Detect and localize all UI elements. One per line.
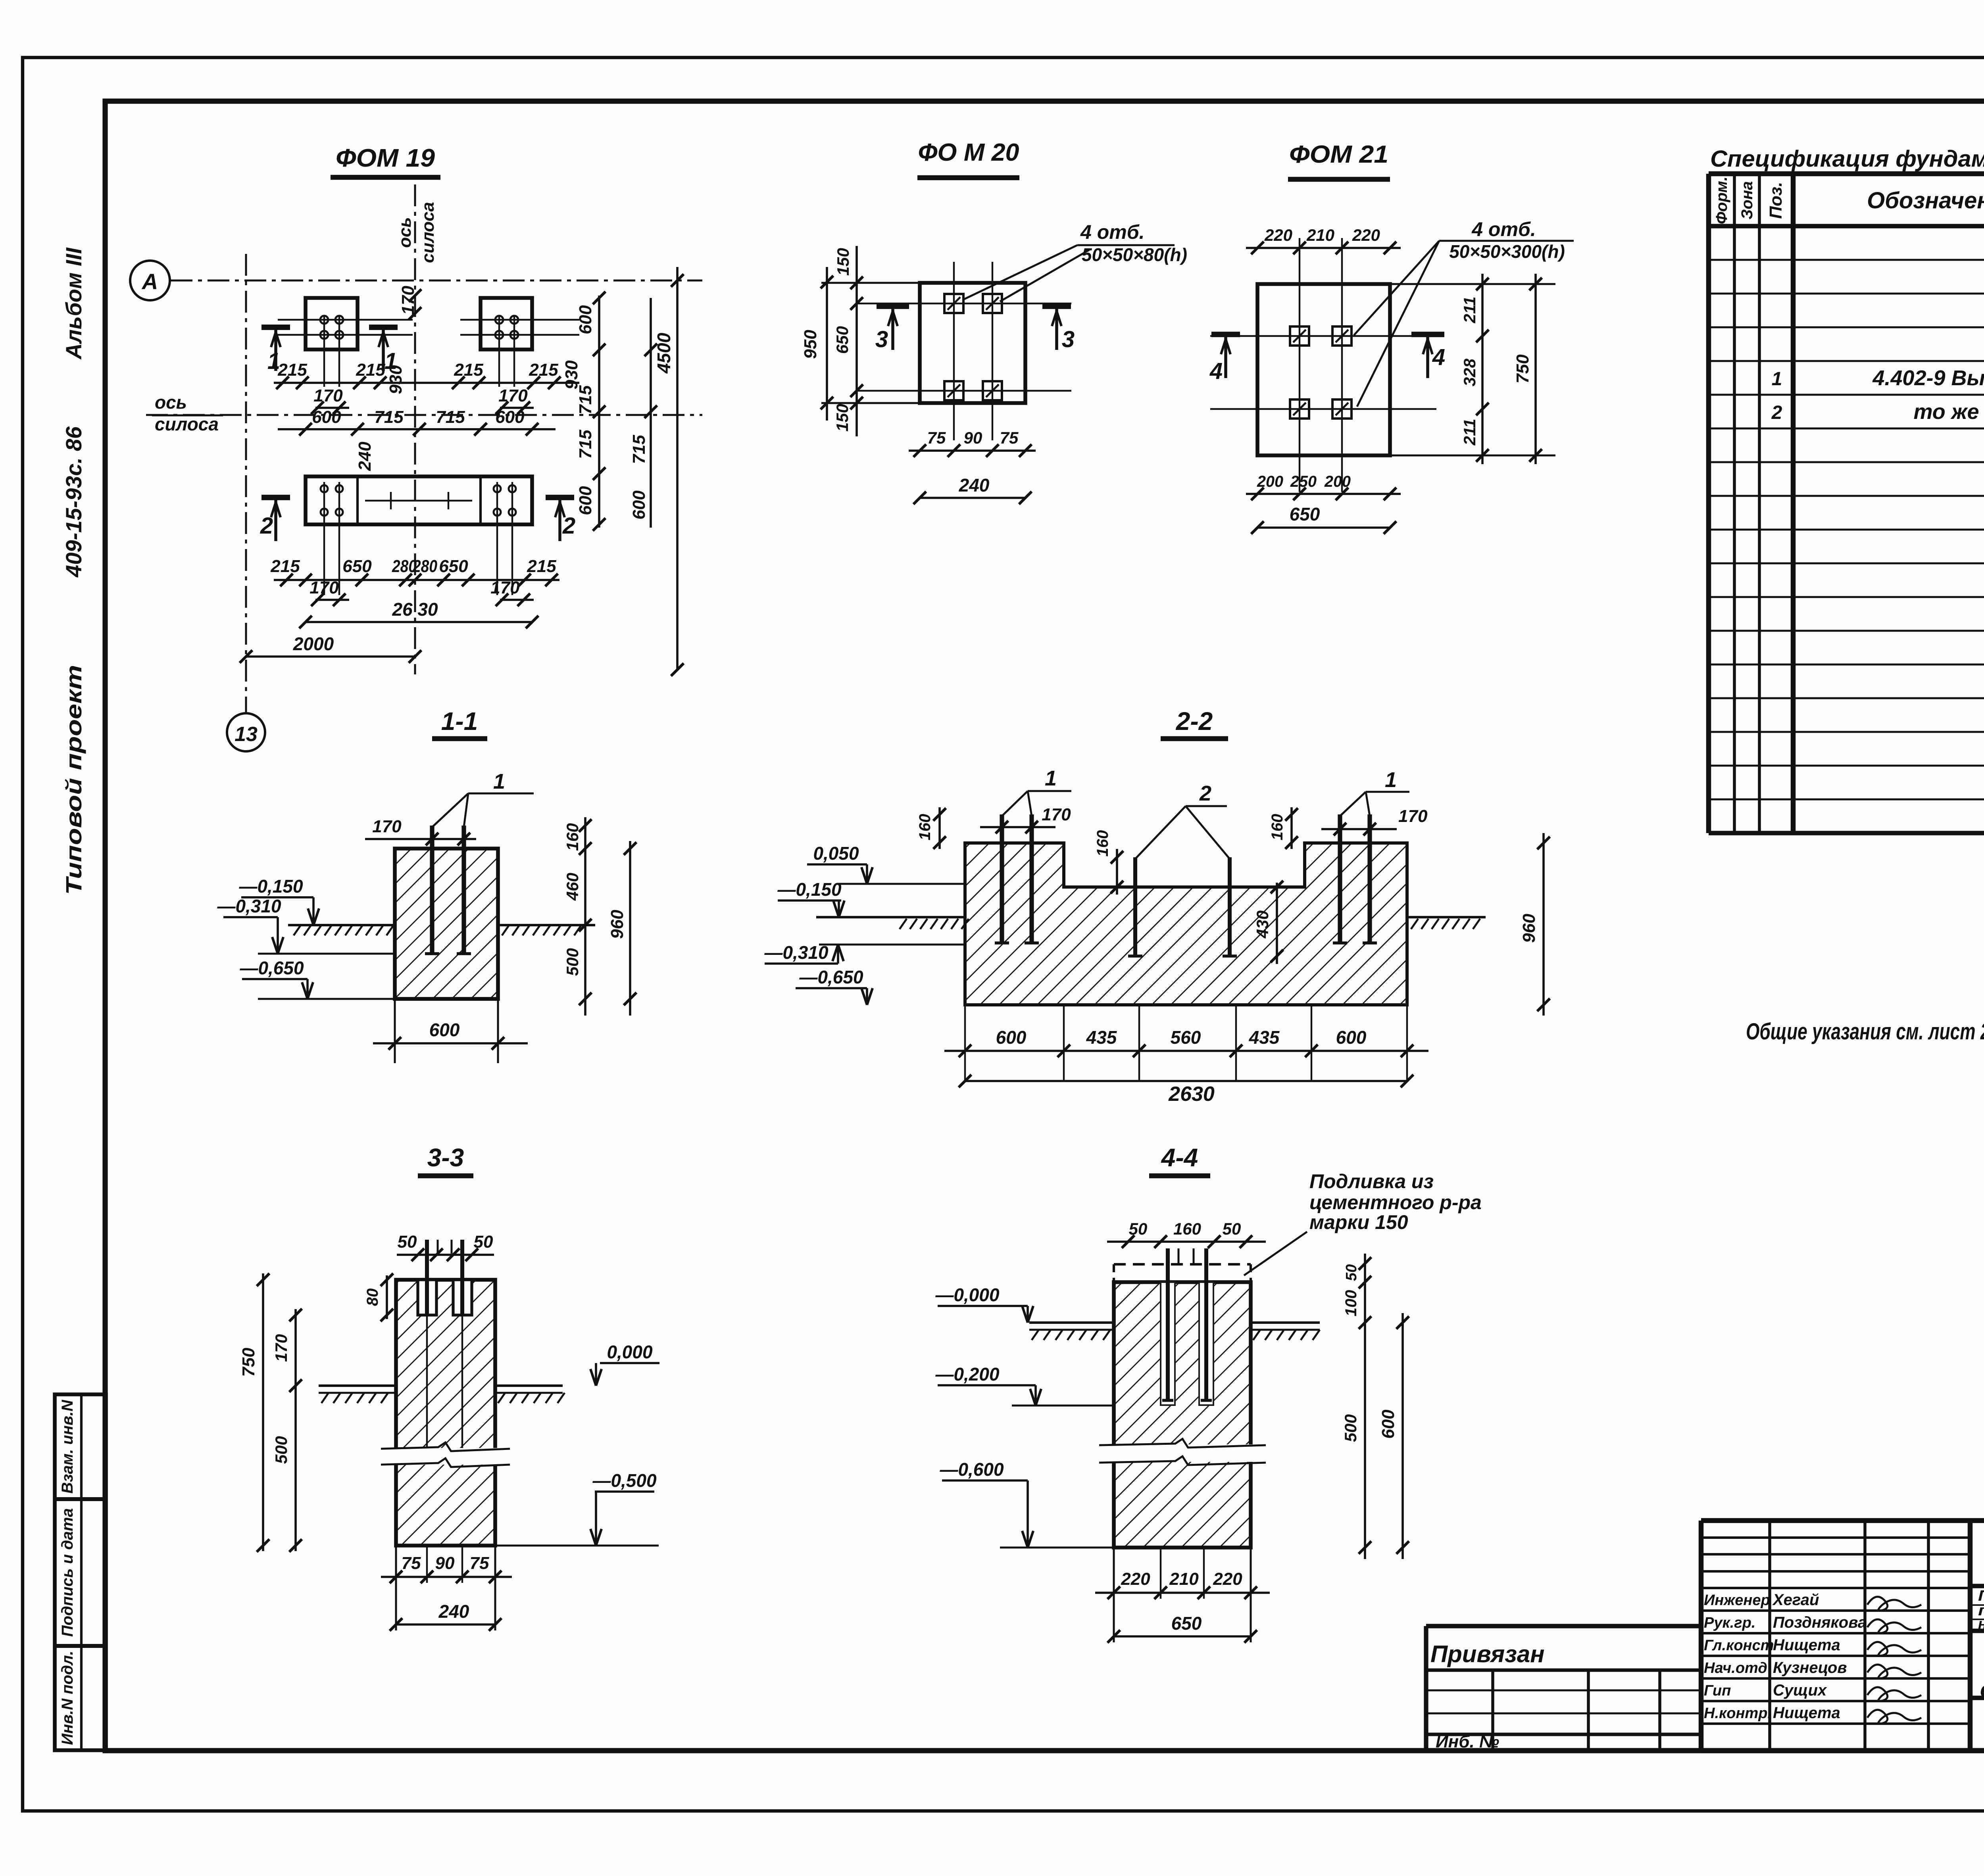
svg-text:Зона: Зона xyxy=(1738,181,1756,220)
svg-text:1: 1 xyxy=(1045,766,1057,790)
svg-text:Нач.отд: Нач.отд xyxy=(1704,1660,1767,1676)
svg-text:Форм.: Форм. xyxy=(1713,177,1730,224)
svg-text:1: 1 xyxy=(493,770,505,793)
svg-text:170: 170 xyxy=(372,817,402,836)
svg-text:—0,650: —0,650 xyxy=(239,958,304,978)
svg-text:то же: то же xyxy=(1913,400,1979,424)
svg-text:715: 715 xyxy=(576,385,595,415)
svg-text:170: 170 xyxy=(1042,805,1071,824)
svg-text:50: 50 xyxy=(398,1232,417,1252)
svg-text:—0,500: —0,500 xyxy=(592,1470,657,1491)
svg-text:75: 75 xyxy=(927,428,946,447)
svg-text:—0,310: —0,310 xyxy=(217,896,281,916)
svg-text:2: 2 xyxy=(1199,782,1211,805)
svg-text:650: 650 xyxy=(1290,504,1320,524)
svg-text:170: 170 xyxy=(490,578,520,597)
svg-text:215: 215 xyxy=(356,360,385,380)
svg-text:силоса: силоса xyxy=(418,202,438,263)
svg-text:Сущих: Сущих xyxy=(1773,1682,1827,1699)
svg-text:26 30: 26 30 xyxy=(392,599,438,620)
svg-text:430: 430 xyxy=(1253,910,1272,939)
svg-text:715: 715 xyxy=(374,407,404,427)
svg-text:90: 90 xyxy=(435,1553,455,1573)
svg-text:650: 650 xyxy=(1171,1613,1202,1634)
svg-text:170: 170 xyxy=(498,386,528,405)
svg-text:1: 1 xyxy=(1385,768,1397,792)
svg-text:75: 75 xyxy=(402,1553,421,1573)
svg-text:50: 50 xyxy=(1129,1219,1148,1238)
svg-text:460: 460 xyxy=(563,873,582,901)
svg-text:240: 240 xyxy=(355,442,375,471)
svg-text:Позднякова: Позднякова xyxy=(1773,1614,1867,1631)
svg-text:210: 210 xyxy=(1169,1569,1199,1589)
svg-text:930: 930 xyxy=(562,360,581,390)
svg-text:Общие указания см. лист 24: Общие указания см. лист 24 xyxy=(1746,1019,1984,1045)
svg-text:цементного р-ра: цементного р-ра xyxy=(1309,1191,1482,1214)
svg-text:240: 240 xyxy=(959,475,990,495)
svg-text:Нищета: Нищета xyxy=(1773,1636,1840,1654)
svg-text:4.402-9 Вып.5: 4.402-9 Вып.5 xyxy=(1872,366,1984,390)
svg-text:—0,150: —0,150 xyxy=(238,876,303,897)
svg-text:4500: 4500 xyxy=(654,332,674,374)
svg-text:2: 2 xyxy=(260,513,273,539)
svg-text:210: 210 xyxy=(1306,226,1334,244)
svg-text:марки 150: марки 150 xyxy=(1309,1211,1408,1233)
svg-text:ось: ось xyxy=(155,392,187,413)
svg-text:930: 930 xyxy=(386,365,406,394)
svg-text:435: 435 xyxy=(1086,1027,1117,1048)
svg-text:600: 600 xyxy=(1336,1027,1367,1048)
svg-text:силоса: силоса xyxy=(155,414,219,434)
svg-text:3: 3 xyxy=(1062,326,1075,352)
svg-text:150: 150 xyxy=(833,404,852,432)
svg-text:2: 2 xyxy=(1771,402,1782,423)
svg-text:50×50×300(h): 50×50×300(h) xyxy=(1449,241,1565,262)
svg-text:—0,650: —0,650 xyxy=(799,967,863,987)
svg-text:600: 600 xyxy=(495,407,525,427)
svg-text:1: 1 xyxy=(1772,369,1782,390)
svg-text:170: 170 xyxy=(310,578,339,597)
svg-text:—0,000: —0,000 xyxy=(935,1285,1000,1305)
svg-text:150: 150 xyxy=(834,248,852,276)
svg-text:100: 100 xyxy=(1342,1290,1360,1317)
svg-text:211: 211 xyxy=(1460,419,1479,446)
svg-text:435: 435 xyxy=(1249,1027,1280,1048)
svg-text:—0,600: —0,600 xyxy=(939,1459,1004,1480)
svg-text:560: 560 xyxy=(1171,1027,1201,1048)
svg-text:215: 215 xyxy=(454,360,483,380)
svg-text:—0,310: —0,310 xyxy=(764,942,829,963)
svg-text:4-4: 4-4 xyxy=(1161,1143,1198,1172)
svg-text:215: 215 xyxy=(277,360,307,380)
svg-text:Инб. №: Инб. № xyxy=(1436,1732,1499,1751)
svg-text:280: 280 xyxy=(412,557,437,576)
svg-text:4: 4 xyxy=(1209,358,1223,384)
svg-text:Производственная база ренстр: Производственная база ренстройучастка с … xyxy=(1978,1588,1984,1604)
svg-text:160: 160 xyxy=(1173,1219,1201,1238)
svg-text:ось: ось xyxy=(395,217,415,248)
svg-text:750: 750 xyxy=(239,1348,258,1377)
svg-text:А: А xyxy=(141,269,158,294)
svg-text:200: 200 xyxy=(1257,473,1283,490)
svg-text:650: 650 xyxy=(833,326,852,354)
svg-text:Нищета: Нищета xyxy=(1773,1704,1840,1722)
svg-text:220: 220 xyxy=(1352,226,1380,244)
svg-text:80: 80 xyxy=(364,1288,381,1306)
svg-text:Инв.N подл.: Инв.N подл. xyxy=(59,1651,76,1745)
svg-text:ФОМ 21: ФОМ 21 xyxy=(1289,141,1388,168)
svg-text:600: 600 xyxy=(312,407,341,427)
svg-text:2630: 2630 xyxy=(1168,1083,1215,1106)
svg-text:складом заполнителей: складом заполнителей xyxy=(1980,1677,1984,1702)
svg-text:160: 160 xyxy=(1269,814,1286,841)
svg-text:750: 750 xyxy=(1513,354,1532,384)
svg-text:Подпись и дата: Подпись и дата xyxy=(59,1508,76,1637)
svg-text:—0,200: —0,200 xyxy=(935,1364,1000,1384)
svg-text:650: 650 xyxy=(342,557,372,576)
svg-text:Гл.конст: Гл.конст xyxy=(1704,1637,1774,1654)
svg-text:Привязан: Привязан xyxy=(1430,1641,1544,1667)
svg-text:Кузнецов: Кузнецов xyxy=(1773,1659,1847,1676)
svg-text:215: 215 xyxy=(527,557,556,576)
svg-text:220: 220 xyxy=(1264,226,1292,244)
svg-text:220: 220 xyxy=(1213,1569,1242,1589)
svg-text:600: 600 xyxy=(576,486,595,515)
svg-text:240: 240 xyxy=(438,1601,469,1622)
svg-text:600: 600 xyxy=(996,1027,1027,1048)
svg-text:Гип: Гип xyxy=(1704,1682,1731,1699)
svg-text:3-3: 3-3 xyxy=(427,1143,464,1172)
svg-text:ФО М 20: ФО М 20 xyxy=(918,139,1019,166)
svg-text:50×50×80(h): 50×50×80(h) xyxy=(1082,244,1187,265)
svg-text:600: 600 xyxy=(429,1020,460,1040)
svg-text:1-1: 1-1 xyxy=(441,707,478,735)
svg-text:600: 600 xyxy=(629,490,649,520)
svg-text:950: 950 xyxy=(801,330,820,359)
svg-text:ФОМ 19: ФОМ 19 xyxy=(336,144,435,172)
svg-text:4 отб.: 4 отб. xyxy=(1471,218,1536,240)
svg-text:Н.контр.: Н.контр. xyxy=(1704,1705,1772,1722)
svg-text:Взам. инв.N: Взам. инв.N xyxy=(59,1400,76,1494)
svg-text:50: 50 xyxy=(474,1232,493,1252)
svg-text:—0,150: —0,150 xyxy=(777,879,842,900)
svg-text:Обозначение: Обозначение xyxy=(1867,188,1984,213)
svg-text:Типовой проект: Типовой проект xyxy=(61,665,86,895)
svg-text:250: 250 xyxy=(1290,473,1317,490)
svg-text:2000: 2000 xyxy=(293,634,334,654)
svg-text:200: 200 xyxy=(1324,473,1351,490)
svg-text:Поз.: Поз. xyxy=(1766,182,1786,219)
svg-text:500: 500 xyxy=(272,1436,290,1464)
svg-text:0,050: 0,050 xyxy=(813,843,859,864)
svg-text:90: 90 xyxy=(964,428,982,447)
svg-text:215: 215 xyxy=(529,360,558,380)
svg-text:3: 3 xyxy=(875,326,888,352)
svg-text:215: 215 xyxy=(270,557,300,576)
svg-text:Спецификация фундаментов под: Спецификация фундаментов под оборудовани… xyxy=(1710,146,1984,172)
svg-text:ностью 7;8;9 баллов): ностью 7;8;9 баллов) xyxy=(1978,1616,1984,1632)
svg-text:4 отб.: 4 отб. xyxy=(1080,221,1145,243)
svg-text:160: 160 xyxy=(563,823,582,851)
svg-text:600: 600 xyxy=(576,305,595,334)
svg-text:13: 13 xyxy=(235,723,258,746)
svg-text:220: 220 xyxy=(1121,1569,1150,1589)
svg-text:170: 170 xyxy=(1398,806,1428,826)
svg-text:Альбом III: Альбом III xyxy=(61,247,86,360)
svg-text:75: 75 xyxy=(470,1553,489,1573)
svg-text:2-2: 2-2 xyxy=(1176,707,1213,735)
svg-text:4: 4 xyxy=(1432,344,1445,370)
svg-text:500: 500 xyxy=(563,948,582,976)
svg-text:960: 960 xyxy=(1519,914,1539,943)
svg-text:715: 715 xyxy=(629,435,649,464)
svg-text:500: 500 xyxy=(1341,1414,1360,1442)
svg-text:170: 170 xyxy=(398,286,418,315)
svg-text:960: 960 xyxy=(608,910,627,939)
svg-text:600: 600 xyxy=(1378,1409,1398,1439)
svg-text:409-15-93с. 86: 409-15-93с. 86 xyxy=(61,426,86,578)
svg-text:170: 170 xyxy=(313,386,343,405)
svg-text:211: 211 xyxy=(1460,297,1479,324)
svg-text:160: 160 xyxy=(1094,830,1111,857)
svg-text:715: 715 xyxy=(576,430,595,459)
svg-text:170: 170 xyxy=(272,1334,290,1362)
svg-text:160: 160 xyxy=(916,814,934,841)
svg-text:50: 50 xyxy=(1223,1219,1241,1238)
svg-text:Рук.гр.: Рук.гр. xyxy=(1704,1615,1755,1631)
svg-text:715: 715 xyxy=(436,407,465,427)
svg-text:2: 2 xyxy=(562,513,575,539)
svg-text:650: 650 xyxy=(439,557,468,576)
svg-text:Инженер: Инженер xyxy=(1704,1592,1770,1609)
svg-text:50: 50 xyxy=(1343,1264,1360,1281)
svg-text:Хегай: Хегай xyxy=(1772,1591,1819,1609)
svg-text:328: 328 xyxy=(1460,358,1479,386)
svg-text:75: 75 xyxy=(1000,428,1019,447)
svg-text:Подливка из: Подливка из xyxy=(1309,1170,1434,1192)
svg-text:0,000: 0,000 xyxy=(607,1342,653,1362)
